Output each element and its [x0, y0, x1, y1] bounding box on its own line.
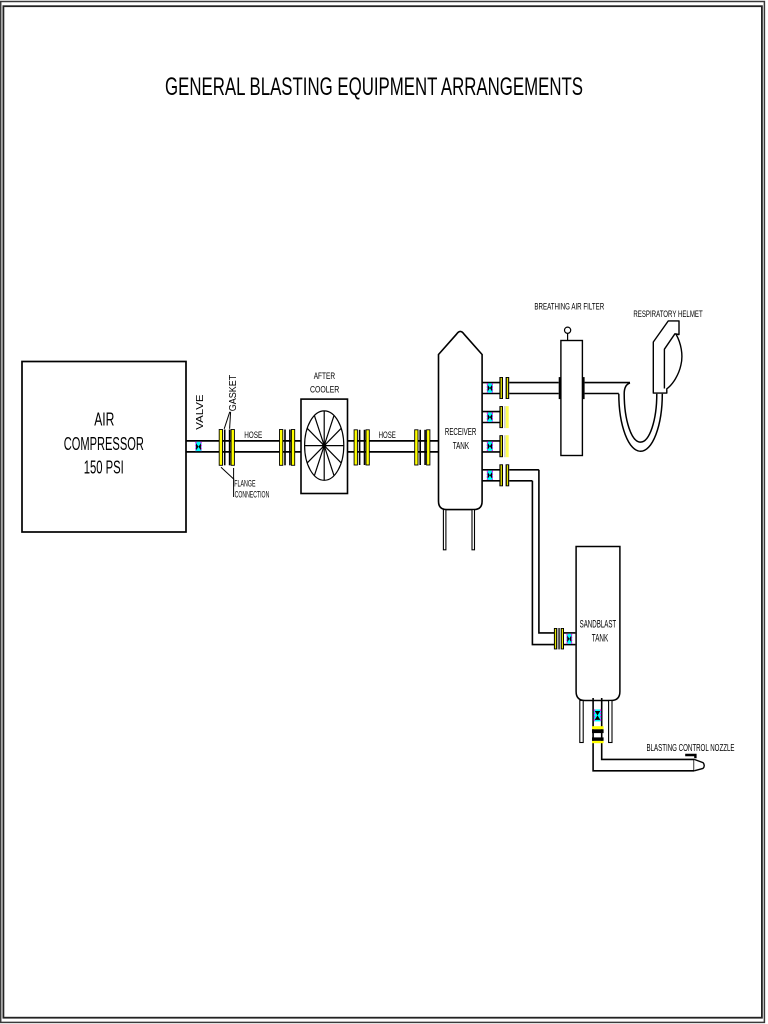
svg-text:TANK: TANK — [592, 632, 609, 644]
svg-text:HOSE: HOSE — [244, 430, 262, 441]
svg-text:AIR: AIR — [94, 409, 114, 429]
svg-text:VALVE: VALVE — [195, 394, 206, 430]
svg-text:RESPIRATORY HELMET: RESPIRATORY HELMET — [633, 309, 702, 320]
svg-text:CONNECTION: CONNECTION — [235, 489, 270, 499]
svg-text:TANK: TANK — [453, 440, 469, 452]
svg-text:RECEIVER: RECEIVER — [445, 426, 477, 438]
svg-text:SANDBLAST: SANDBLAST — [580, 619, 617, 631]
svg-text:BLASTING CONTROL NOZZLE: BLASTING CONTROL NOZZLE — [647, 743, 735, 754]
svg-text:COMPRESSOR: COMPRESSOR — [64, 434, 144, 454]
svg-text:150 PSI: 150 PSI — [84, 458, 124, 478]
svg-text:FLANGE: FLANGE — [234, 478, 255, 488]
svg-text:BREATHING AIR FILTER: BREATHING AIR FILTER — [534, 301, 604, 312]
svg-text:HOSE: HOSE — [379, 430, 396, 441]
svg-text:GASKET: GASKET — [228, 375, 239, 412]
svg-text:AFTER: AFTER — [314, 371, 335, 382]
svg-text:GENERAL BLASTING EQUIPMENT ARR: GENERAL BLASTING EQUIPMENT ARRANGEMENTS — [165, 73, 583, 101]
svg-text:COOLER: COOLER — [310, 385, 339, 396]
